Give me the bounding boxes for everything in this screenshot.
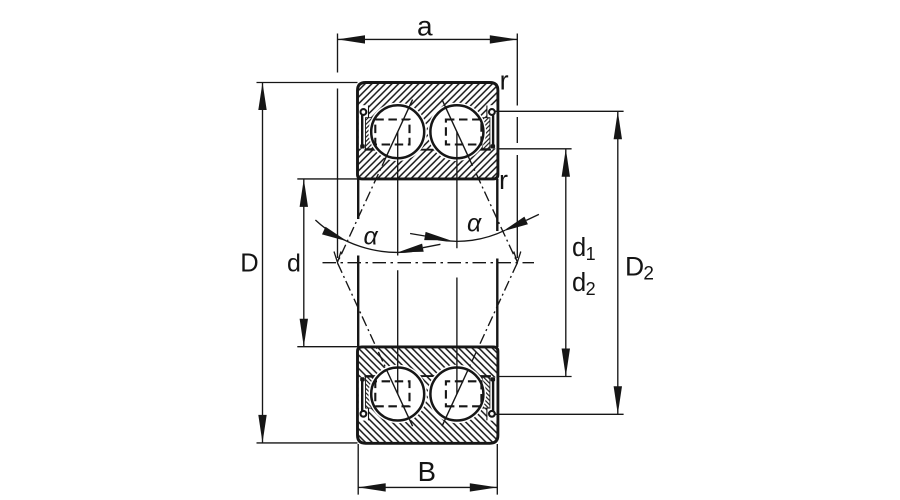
svg-text:B: B [418, 456, 436, 487]
svg-text:d: d [287, 250, 301, 278]
svg-text:2: 2 [643, 264, 654, 285]
svg-text:D: D [240, 249, 258, 277]
svg-text:α: α [364, 223, 379, 251]
svg-text:1: 1 [586, 244, 596, 264]
svg-text:2: 2 [586, 279, 596, 299]
svg-text:d: d [572, 234, 586, 262]
svg-text:d: d [572, 269, 586, 297]
svg-text:r: r [499, 165, 508, 195]
svg-text:α: α [467, 210, 482, 238]
svg-text:a: a [417, 11, 433, 42]
svg-text:D: D [625, 251, 644, 281]
svg-text:r: r [500, 66, 509, 96]
